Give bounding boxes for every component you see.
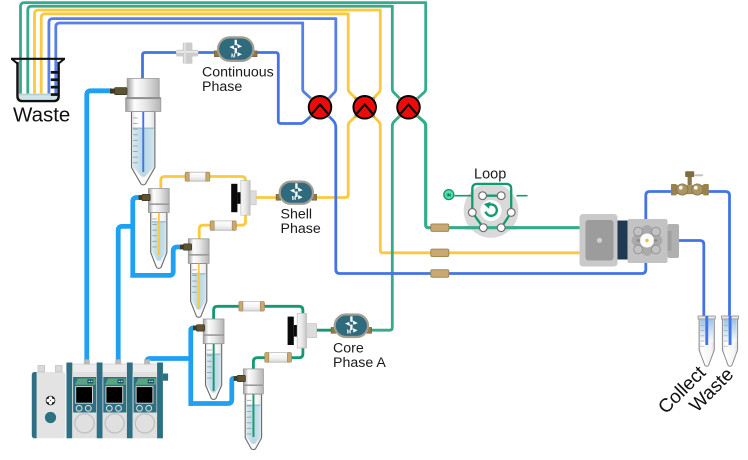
connector shell tube 1 [139, 194, 151, 200]
wire yellow pinch valve to shell pump [255, 196, 280, 199]
wire green right stub [517, 195, 528, 197]
pump U3 Core Phase A [331, 315, 372, 338]
wire blue valve1 to needle-valve and waste tube [328, 115, 730, 342]
wire cyan pump-ch2 riser [118, 226, 134, 363]
pinch valve shell [231, 181, 256, 216]
wire teal valve3 to loop to pump block [416, 115, 584, 228]
wire blue valve1 top-right drop [328, 17, 336, 99]
wire cyan pump-ch1 to big tube connector [87, 91, 112, 363]
valve V1 (blue lines) [309, 96, 332, 119]
wire blue waste-to-valve1-left (top row 6) [56, 23, 303, 94]
syringe pump unit [32, 359, 168, 438]
wire blue continuous-pump to valve1 [143, 53, 313, 124]
ferrule on yellow line [431, 249, 449, 256]
tube waste [721, 316, 738, 366]
filter F2 shell lower [210, 221, 236, 230]
wire teal loop bottom passthrough [465, 226, 517, 229]
pump head [628, 219, 680, 263]
wire cyan pump-ch3 riser [147, 359, 191, 364]
connector shell tube 2 [180, 244, 192, 250]
svg-text:IN: IN [447, 192, 452, 197]
svg-text:Shell: Shell [281, 207, 313, 223]
beaker rim and graduations [11, 59, 65, 96]
right drive block [580, 214, 618, 267]
pinch valve core [288, 313, 317, 348]
wire green loop diagonals [472, 196, 511, 228]
tube collect [698, 316, 715, 366]
ferrule on blue line [431, 270, 449, 277]
tube big waste-collection [126, 79, 161, 185]
wire teal valve3 top-right drop [416, 1, 425, 99]
cross fitting (4-way connector) [176, 43, 198, 64]
coupler bar [618, 221, 628, 260]
wire green core circuit tubeA-filter-pinch-filter-tubeB [214, 306, 303, 370]
pump U1 Continuous Phase [214, 37, 257, 61]
wire blue pump block to collect tube [678, 241, 704, 343]
svg-text:M: M [347, 329, 351, 335]
svg-text:Waste: Waste [13, 104, 70, 127]
wire yellow valve2 top-right drop [373, 9, 381, 100]
svg-text:M: M [292, 196, 296, 202]
needle valve (brass) [671, 171, 709, 195]
IN port badge [444, 190, 454, 200]
wire cyan manifold to shell tube 2 [130, 247, 181, 275]
loop center rotor [480, 200, 501, 221]
wire teal waste-to-valve3-right (top row 1) [21, 3, 426, 94]
wire green IN stub [455, 195, 474, 197]
svg-text:Continuous: Continuous [202, 65, 274, 81]
tube shell phase 2 [188, 239, 209, 317]
wire yellow valve2 to shell pump [314, 115, 357, 197]
tube core phase A1 [203, 319, 224, 400]
filter F1 shell upper [185, 172, 210, 181]
ferrule on teal loop line [431, 224, 449, 231]
svg-text:M: M [231, 53, 235, 59]
wire blue waste-to-valve1-right (top row 5) [49, 19, 336, 94]
svg-text:Core: Core [333, 341, 364, 357]
tube core phase A2 [243, 369, 263, 450]
wire yellow valve2 top-left drop [348, 13, 357, 100]
svg-text:Phase: Phase [202, 79, 242, 95]
wire blue valve1 top-left drop [303, 22, 313, 100]
loop valve body [464, 183, 519, 238]
wire teal waste-to-valve3-left (top row 2) [28, 6, 393, 93]
wire teal valve3 top-left drop [392, 5, 400, 100]
wire teal valve3 to core pump [367, 115, 401, 330]
wire yellow waste-to-valve2-right (top row 3) [35, 10, 381, 94]
valve V3 (teal lines) [397, 96, 420, 119]
svg-text:Loop: Loop [474, 167, 506, 183]
wire green pinch valve to core pump [316, 329, 337, 332]
connector big tube [110, 88, 127, 95]
pump U2 Shell Phase [276, 182, 317, 204]
wire cyan manifold to core tube A [191, 328, 195, 406]
svg-text:Phase: Phase [281, 221, 321, 237]
wire cyan manifold to shell tube 1 [133, 198, 141, 278]
valve V2 (yellow lines) [353, 96, 376, 119]
wire green loop over-the-top tube [472, 184, 511, 213]
filter F3 core upper [239, 302, 264, 311]
tube shell phase 1 [148, 189, 169, 269]
wire yellow valve2 to pump block [373, 115, 585, 253]
wire yellow shell circuit tube1-filter-pinch-filter-tube2 [161, 177, 246, 240]
wire yellow waste-to-valve2-left (top row 4) [41, 14, 348, 94]
connector core tube B [234, 375, 246, 381]
svg-text:Phase A: Phase A [333, 355, 386, 371]
wire cyan manifold to core tube B [189, 378, 236, 403]
beaker Waste (body and liquid) [18, 62, 59, 101]
connector core tube A [193, 325, 205, 331]
loop ports [479, 192, 487, 200]
filter F4 core lower [265, 353, 292, 363]
